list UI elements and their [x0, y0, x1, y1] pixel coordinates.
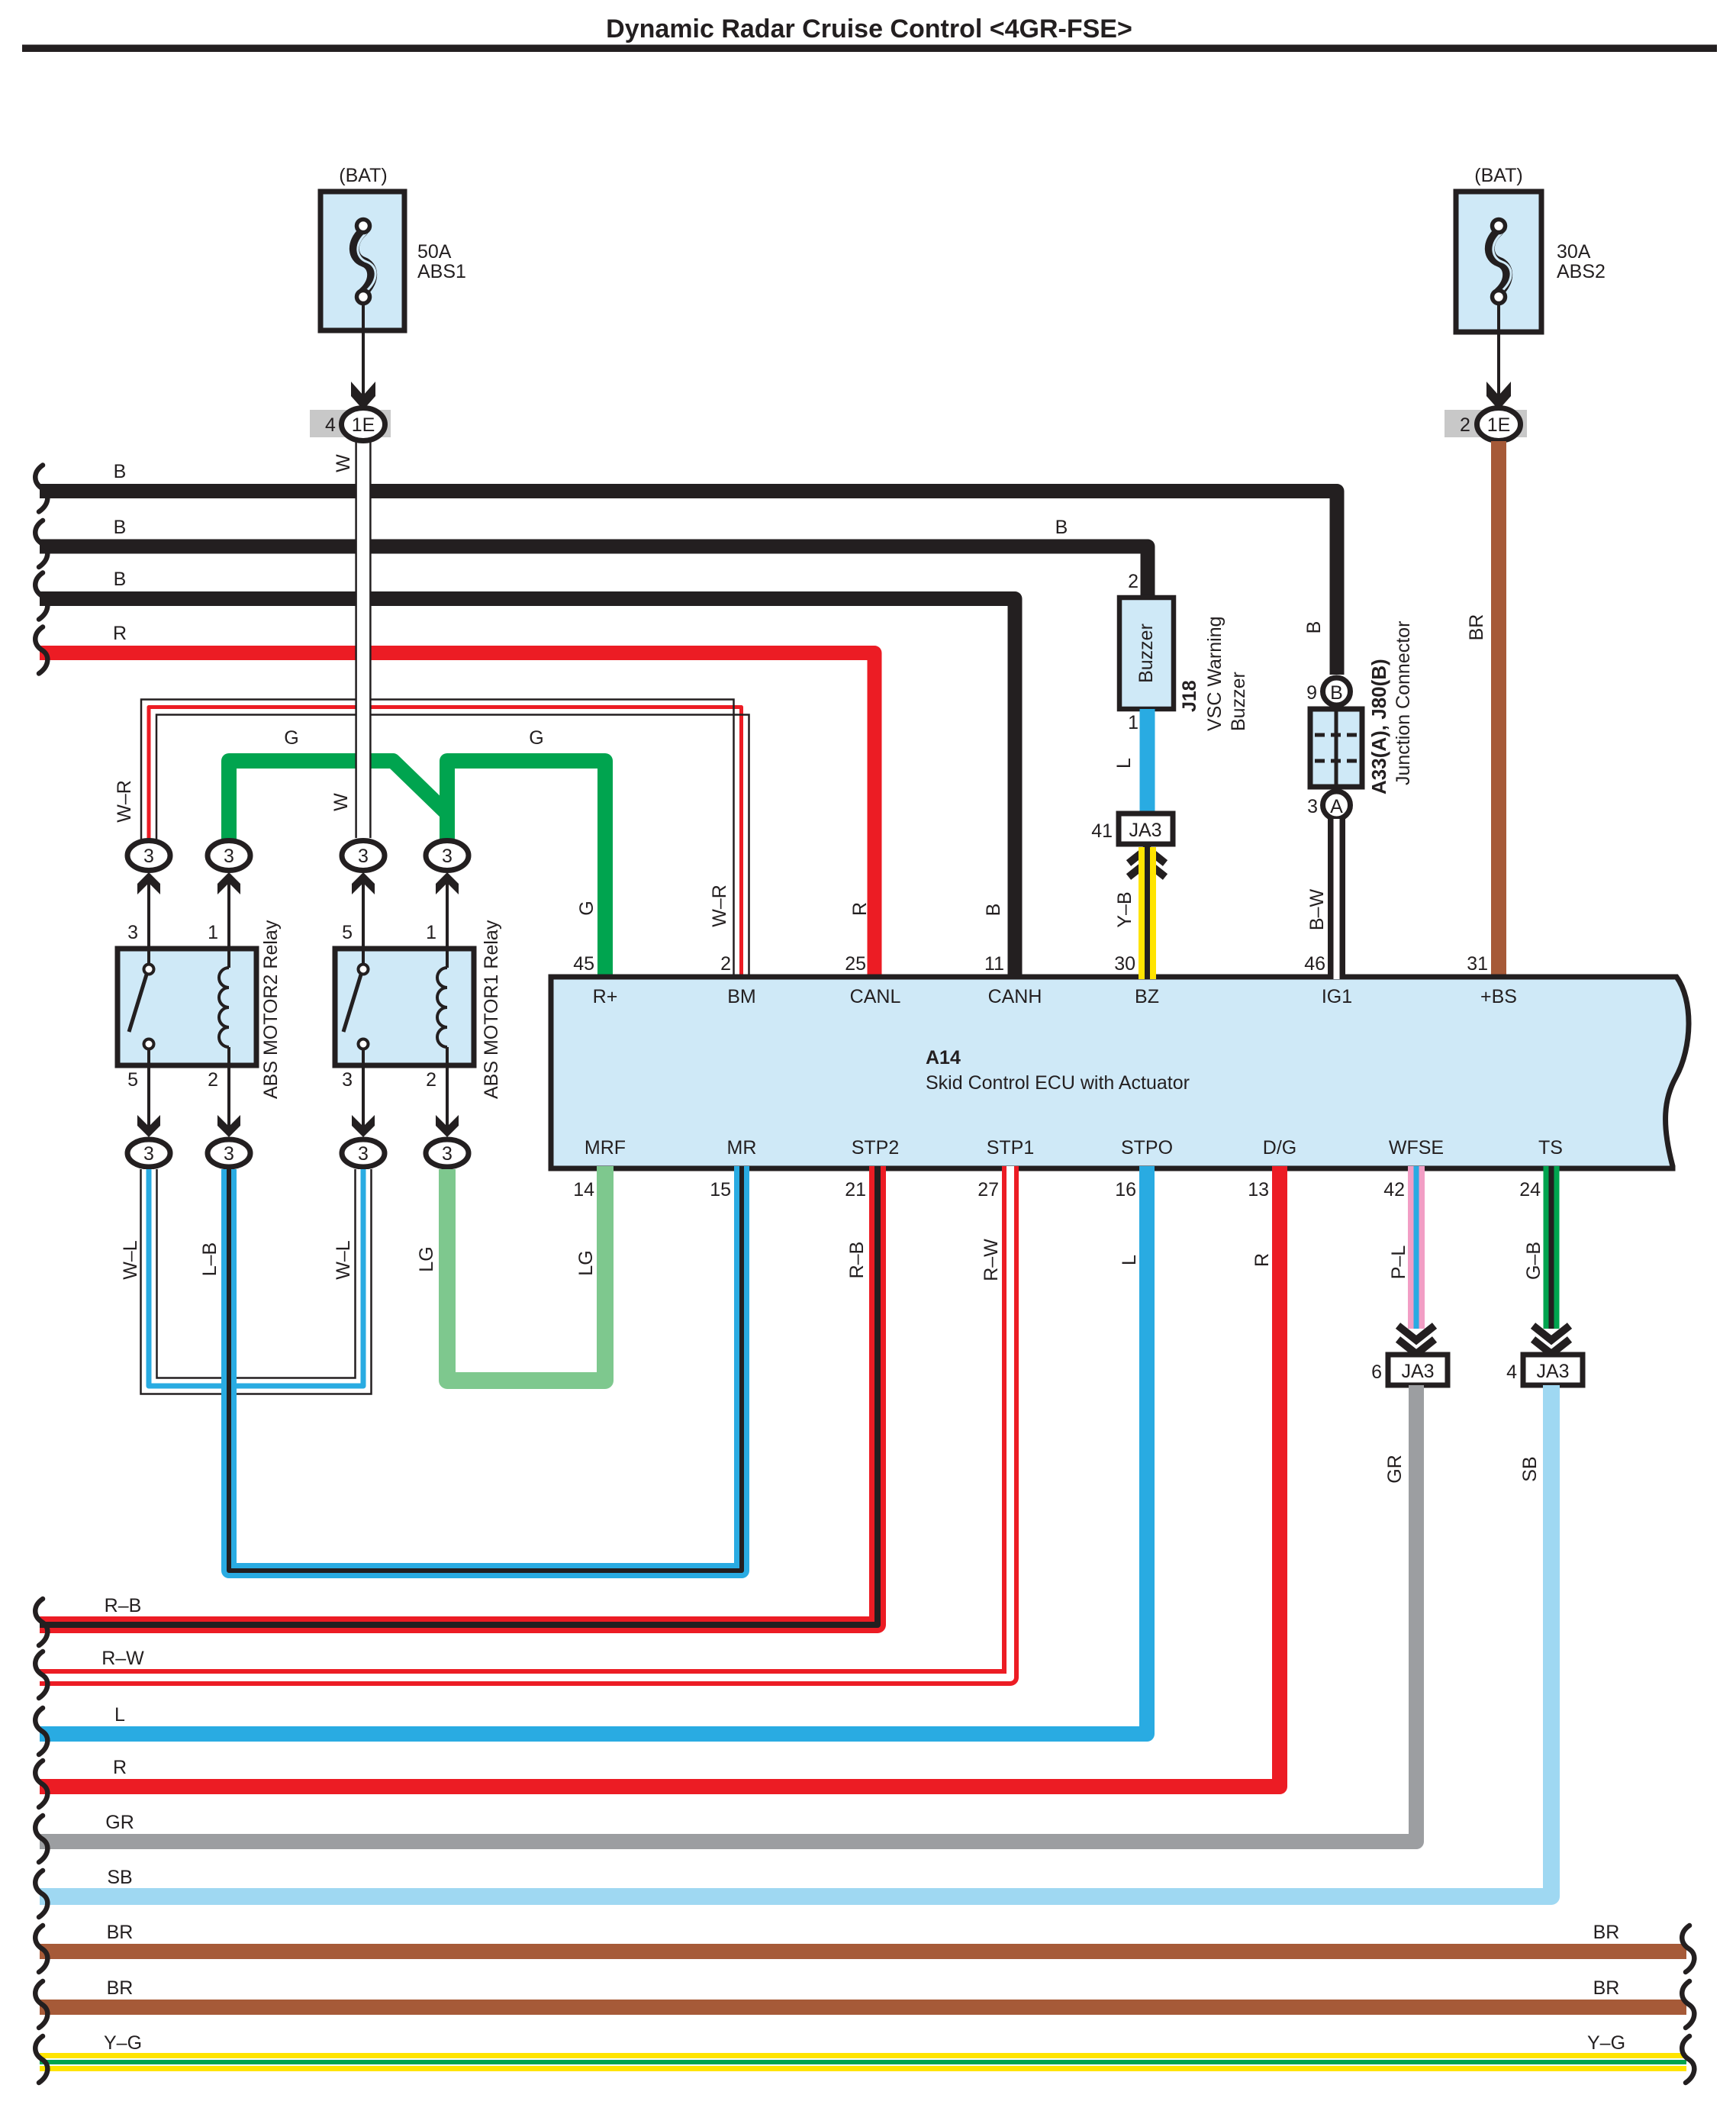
arrow up into connector 3 (top row 4): [436, 872, 459, 894]
svg-text:IG1: IG1: [1322, 986, 1352, 1007]
svg-text:B: B: [114, 517, 127, 538]
svg-text:3: 3: [1307, 796, 1318, 817]
connector JA3 pin 6: [1388, 1355, 1448, 1385]
svg-text:Junction Connector: Junction Connector: [1393, 621, 1414, 785]
svg-text:CANH: CANH: [988, 986, 1042, 1007]
svg-text:B: B: [114, 461, 127, 482]
svg-text:B: B: [1303, 621, 1325, 634]
arrow up into connector 3 (top row 3): [352, 872, 375, 894]
svg-text:25: 25: [845, 953, 866, 975]
svg-text:Y–G: Y–G: [1587, 2032, 1625, 2054]
svg-text:STP2: STP2: [852, 1137, 900, 1159]
svg-text:Y–B: Y–B: [1114, 891, 1135, 927]
connector 1E pin 2 (right): [1445, 410, 1527, 437]
svg-text:L–B: L–B: [199, 1242, 221, 1276]
svg-text:WFSE: WFSE: [1389, 1137, 1444, 1159]
wire relay pin down to connector (bottom row 3): [362, 1065, 365, 1133]
svg-text:2: 2: [426, 1069, 436, 1091]
svg-text:+BS: +BS: [1480, 986, 1517, 1007]
wire BR page link 1 (brown): [40, 1944, 1686, 1959]
wire Y-G page link (yellow w/ green stripe): [40, 2053, 1686, 2071]
wire W-L: connector bottom row 1 to row 3 (white w/ blue stripe U): [149, 1169, 363, 1386]
svg-text:1: 1: [426, 922, 436, 943]
wire G: ECU pin 45 R+ to relay coil pins (splice): [229, 761, 445, 839]
wire BR: 1E to ECU pin 31 +BS (brown): [1491, 441, 1506, 979]
wire P-L: ECU pin 42 WFSE to JA3 (pink w/ blue stripe): [1408, 1166, 1425, 1329]
svg-text:3: 3: [358, 846, 369, 867]
svg-text:24: 24: [1519, 1179, 1541, 1200]
svg-text:R+: R+: [593, 986, 618, 1007]
squiggle left end wire R: [35, 627, 47, 674]
buzzer J18 VSC Warning Buzzer: [1119, 598, 1174, 709]
svg-text:21: 21: [845, 1179, 866, 1200]
svg-text:LG: LG: [416, 1246, 437, 1271]
svg-text:L: L: [114, 1704, 125, 1726]
svg-text:30A: 30A: [1557, 241, 1591, 263]
svg-text:P–L: P–L: [1388, 1246, 1409, 1280]
svg-text:27: 27: [978, 1179, 999, 1200]
connector 3 oval (top row 1) x=195: [127, 841, 170, 871]
svg-text:R–B: R–B: [105, 1595, 142, 1616]
svg-text:3: 3: [442, 1143, 453, 1165]
connector JA3 pin 4: [1523, 1355, 1583, 1385]
wire L: buzzer pin 1 to JA3 (blue): [1140, 709, 1155, 814]
svg-text:A: A: [1330, 796, 1343, 817]
svg-text:G–B: G–B: [1523, 1242, 1544, 1280]
arrow double chevron up into JA3 41: [1129, 849, 1165, 863]
svg-text:46: 46: [1304, 953, 1325, 975]
squiggle left end wire B2: [35, 520, 47, 567]
svg-text:1E: 1E: [1487, 414, 1511, 436]
svg-text:W–R: W–R: [709, 885, 730, 927]
svg-text:6: 6: [1371, 1362, 1382, 1383]
svg-text:BZ: BZ: [1135, 986, 1159, 1007]
svg-text:(BAT): (BAT): [339, 165, 387, 186]
svg-text:W: W: [333, 454, 354, 472]
connector 3 oval (top row 3) x=476: [342, 841, 385, 871]
svg-text:1E: 1E: [352, 414, 375, 436]
wire relay pin down to connector (bottom row 4): [446, 1065, 449, 1133]
svg-text:B: B: [983, 904, 1004, 917]
wire relay pin up to connector (top row 4): [446, 878, 449, 951]
svg-text:W–L: W–L: [333, 1240, 354, 1280]
wire relay pin down to connector (bottom row 2): [227, 1065, 230, 1133]
relay ABS MOTOR2 Relay: [118, 949, 256, 1065]
svg-text:STPO: STPO: [1121, 1137, 1173, 1159]
wire Y-B: JA3 to ECU pin 30 BZ (yellow w/ black stripe): [1139, 847, 1156, 979]
wire R (CANL) horizontal, to ECU pin 25: [40, 653, 874, 980]
svg-text:5: 5: [342, 922, 353, 943]
arrow down into connector 3 (bottom row 2): [217, 1115, 240, 1137]
svg-text:3: 3: [127, 922, 138, 943]
svg-text:R: R: [849, 902, 871, 916]
svg-text:A33(A), J80(B): A33(A), J80(B): [1367, 659, 1390, 794]
wire R: ECU pin 13 D/G to page link (red): [40, 1166, 1280, 1787]
svg-text:B–W: B–W: [1306, 889, 1328, 931]
svg-text:LG: LG: [575, 1250, 597, 1275]
svg-text:50A: 50A: [417, 241, 452, 263]
svg-text:3: 3: [358, 1143, 369, 1165]
svg-text:JA3: JA3: [1536, 1361, 1569, 1382]
svg-text:GR: GR: [105, 1812, 134, 1833]
connector 3 oval (top row 4) x=586: [426, 841, 469, 871]
wire W-R: relay ABS MOTOR2 pin 3 to ECU pin 2 BM (white w/ red stripe): [149, 707, 742, 980]
svg-text:W: W: [330, 793, 352, 811]
svg-text:D/G: D/G: [1263, 1137, 1296, 1159]
svg-text:L: L: [1113, 758, 1135, 769]
junction connector A33(A), J80(B): [1323, 678, 1351, 705]
svg-text:45: 45: [573, 953, 594, 975]
wire fuse ABS1 to connector 1E: [362, 301, 365, 408]
svg-text:JA3: JA3: [1129, 820, 1161, 841]
svg-text:ABS MOTOR2 Relay: ABS MOTOR2 Relay: [260, 920, 282, 1099]
arrow up into connector 3 (top row 2): [217, 872, 240, 894]
connector 3 oval (bottom row 1) x=195: [127, 1139, 170, 1167]
svg-text:16: 16: [1115, 1179, 1136, 1200]
svg-text:ABS MOTOR1 Relay: ABS MOTOR1 Relay: [481, 920, 502, 1099]
svg-text:J18: J18: [1179, 680, 1200, 712]
wire B (ground rail 3) horizontal, to ECU pin 11 CANH: [40, 599, 1015, 980]
wire L: ECU pin 16 STPO to page link (blue): [40, 1166, 1147, 1734]
svg-text:VSC Warning: VSC Warning: [1204, 616, 1226, 731]
svg-text:11: 11: [984, 953, 1004, 975]
svg-text:BR: BR: [1466, 614, 1487, 641]
svg-text:MR: MR: [727, 1137, 757, 1159]
wire G-B: ECU pin 24 TS to JA3 (green w/ black stripe): [1544, 1166, 1560, 1329]
svg-text:1: 1: [1128, 712, 1139, 733]
wire GR: JA3 6 to page link (grey): [40, 1385, 1416, 1842]
wire SB: JA3 4 to page link (sky blue): [40, 1385, 1551, 1896]
svg-text:BR: BR: [1593, 1922, 1620, 1943]
connector 1E pin 4 (left): [310, 410, 391, 437]
svg-text:2: 2: [1460, 414, 1470, 436]
svg-text:MRF: MRF: [585, 1137, 626, 1159]
svg-text:(BAT): (BAT): [1474, 165, 1522, 186]
wire relay pin up to connector (top row 3): [362, 878, 365, 951]
wire R-B: ECU pin 21 STP2 to page link (red w/ black stripe): [40, 1166, 878, 1625]
svg-text:L: L: [1119, 1255, 1140, 1265]
wire B (ground rail 1) horizontal, to junction connector B: [40, 491, 1337, 675]
wire fuse ABS2 to connector 1E: [1497, 303, 1500, 408]
relay ABS MOTOR1 Relay: [335, 949, 474, 1065]
svg-text:3: 3: [224, 1143, 234, 1165]
svg-text:GR: GR: [1384, 1455, 1406, 1484]
ECU A14 Skid Control ECU with Actuator: [551, 977, 1689, 1168]
svg-text:W–R: W–R: [114, 780, 135, 823]
svg-text:15: 15: [710, 1179, 731, 1200]
svg-text:9: 9: [1306, 682, 1317, 704]
svg-text:R–W: R–W: [101, 1648, 144, 1669]
svg-text:3: 3: [143, 846, 154, 867]
connector 3 oval (top row 2) x=300: [208, 841, 250, 871]
wire R-W: ECU pin 27 STP1 to page link (red w/ white stripe): [40, 1166, 1010, 1677]
svg-text:BM: BM: [727, 986, 756, 1007]
svg-text:R: R: [1251, 1253, 1273, 1267]
svg-text:14: 14: [573, 1179, 594, 1200]
arrow down into connector 3 (bottom row 4): [436, 1115, 459, 1137]
wire relay pin up to connector (top row 2): [227, 878, 230, 951]
connector JA3 pin 41: [1119, 814, 1173, 844]
svg-text:Buzzer: Buzzer: [1135, 624, 1157, 683]
svg-text:31: 31: [1467, 953, 1488, 975]
arrow double chevron down into JA3 4: [1533, 1326, 1570, 1340]
svg-text:CANL: CANL: [850, 986, 901, 1007]
wire BR page link 2 (brown): [40, 2000, 1686, 2015]
svg-text:5: 5: [127, 1069, 138, 1091]
svg-text:Y–G: Y–G: [104, 2032, 142, 2054]
svg-text:STP1: STP1: [987, 1137, 1035, 1159]
wire L-B: connector bottom row 2 to ECU pin 15 MR (blue w/ black stripe): [229, 1166, 742, 1571]
svg-text:TS: TS: [1538, 1137, 1563, 1159]
svg-text:G: G: [529, 727, 543, 749]
arrow into connector 1E right: [1486, 382, 1511, 410]
svg-text:G: G: [284, 727, 298, 749]
squiggle left end wire B3: [35, 573, 47, 620]
wire B (ground rail 2) horizontal, to buzzer pin 2: [40, 546, 1148, 600]
wire relay pin up to connector (top row 1): [147, 878, 150, 951]
svg-text:Dynamic Radar Cruise Control <: Dynamic Radar Cruise Control <4GR-FSE>: [606, 15, 1132, 44]
svg-text:BR: BR: [107, 1922, 134, 1943]
svg-text:R: R: [113, 623, 127, 644]
squiggle left end wire B1: [35, 466, 47, 512]
svg-text:B: B: [114, 569, 127, 590]
svg-text:Buzzer: Buzzer: [1228, 672, 1249, 731]
arrow up into connector 3 (top row 1): [137, 872, 160, 894]
svg-text:R–W: R–W: [981, 1239, 1002, 1281]
svg-text:B: B: [1055, 517, 1068, 538]
svg-text:4: 4: [1506, 1362, 1517, 1383]
svg-text:3: 3: [442, 846, 453, 867]
title underline bar: [22, 45, 1717, 53]
wire relay pin down to connector (bottom row 1): [147, 1065, 150, 1133]
svg-text:42: 42: [1383, 1179, 1405, 1200]
svg-text:3: 3: [224, 846, 234, 867]
connector 3 oval (bottom row 3) x=476: [342, 1139, 385, 1167]
svg-text:BR: BR: [107, 1977, 134, 1999]
arrow double chevron down into JA3 6: [1398, 1326, 1435, 1340]
svg-text:3: 3: [143, 1143, 154, 1165]
svg-text:2: 2: [1128, 571, 1139, 592]
svg-text:JA3: JA3: [1401, 1361, 1434, 1382]
arrow into connector 1E left: [351, 382, 375, 410]
svg-text:30: 30: [1114, 953, 1135, 975]
svg-text:1: 1: [208, 922, 218, 943]
arrow down into connector 3 (bottom row 3): [352, 1115, 375, 1137]
svg-text:ABS1: ABS1: [417, 261, 466, 282]
svg-text:SB: SB: [107, 1867, 132, 1888]
connector 3 oval (bottom row 2) x=300: [208, 1139, 250, 1167]
wire B-W: junction A to ECU pin 46 IG1 (black w/ white stripe): [1328, 819, 1345, 979]
svg-text:G: G: [576, 901, 597, 915]
svg-text:2: 2: [208, 1069, 218, 1091]
svg-text:41: 41: [1091, 820, 1113, 842]
svg-text:R–B: R–B: [846, 1242, 868, 1279]
svg-text:ABS2: ABS2: [1557, 261, 1606, 282]
wire LG: connector bottom row 4 to ECU pin 14 MRF (light green U): [447, 1166, 605, 1381]
svg-text:R: R: [113, 1757, 127, 1778]
svg-text:A14: A14: [926, 1047, 961, 1068]
svg-text:SB: SB: [1519, 1456, 1541, 1481]
fuse 30A ABS2: [1456, 192, 1541, 332]
fuse 50A ABS1: [320, 192, 404, 330]
svg-text:2: 2: [720, 953, 731, 975]
svg-text:3: 3: [342, 1069, 353, 1091]
svg-text:W–L: W–L: [120, 1240, 141, 1280]
svg-text:4: 4: [325, 414, 336, 436]
wire W: fuse ABS1 via 1E to relay ABS MOTOR1 pin 5 (white): [356, 440, 372, 838]
connector 3 oval (bottom row 4) x=586: [426, 1139, 469, 1167]
svg-text:B: B: [1330, 682, 1343, 704]
svg-text:Skid Control ECU with Actuator: Skid Control ECU with Actuator: [926, 1072, 1190, 1094]
arrow down into connector 3 (bottom row 1): [137, 1115, 160, 1137]
svg-text:13: 13: [1248, 1179, 1269, 1200]
svg-text:BR: BR: [1593, 1977, 1620, 1999]
